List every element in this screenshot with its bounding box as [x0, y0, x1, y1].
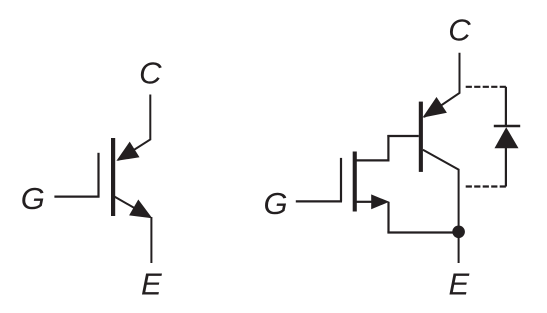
wire: diode branch upper segment [505, 87, 507, 126]
svg-text:C: C [448, 13, 471, 48]
wire: collector lead from C [118, 95, 150, 161]
wire: vertical connector drain riser [387, 135, 389, 162]
wire: emitter lead to E [150, 217, 152, 263]
PNP transistor Q1 base bar [419, 102, 423, 172]
MOSFET source arrowhead [371, 194, 389, 209]
svg-text:C: C [139, 56, 162, 91]
wire: gate lead from G [54, 196, 99, 198]
wire: PNP collector diagonal and drop to E [423, 150, 459, 263]
svg-text:E: E [448, 267, 469, 302]
collector arrowhead pointing into bar [116, 142, 139, 161]
wire: MOSFET drain stub [356, 159, 390, 161]
MOSFET M1 body bar [353, 152, 357, 212]
IGBT gate line [97, 153, 99, 198]
diode D1 anode triangle [495, 127, 519, 148]
wire: collector lead down from C [424, 53, 460, 117]
wire: emitter diagonal from bar [115, 197, 151, 217]
svg-text:E: E [141, 267, 162, 302]
node junction dot [452, 226, 465, 239]
emitter arrowhead pointing away from bar [129, 200, 152, 219]
dashed wire: top link to diode branch [465, 86, 506, 88]
wire: MOSFET source stub [356, 201, 372, 203]
wire: diode branch lower segment [505, 147, 507, 187]
wire: PNP base to MOSFET drain [387, 135, 418, 137]
diode D1 cathode bar [494, 125, 520, 127]
PNP emitter arrowhead pointing into base bar [423, 97, 447, 118]
MOSFET gate line [340, 158, 342, 202]
IGBT body bar [111, 138, 115, 216]
svg-text:G: G [263, 186, 287, 221]
wire: bottom rail to node [387, 231, 458, 233]
wire: gate lead from G [296, 200, 342, 202]
svg-text:G: G [21, 181, 45, 216]
dashed wire: bottom link from diode branch [465, 185, 506, 187]
wire: source drop to bottom rail [387, 202, 389, 233]
